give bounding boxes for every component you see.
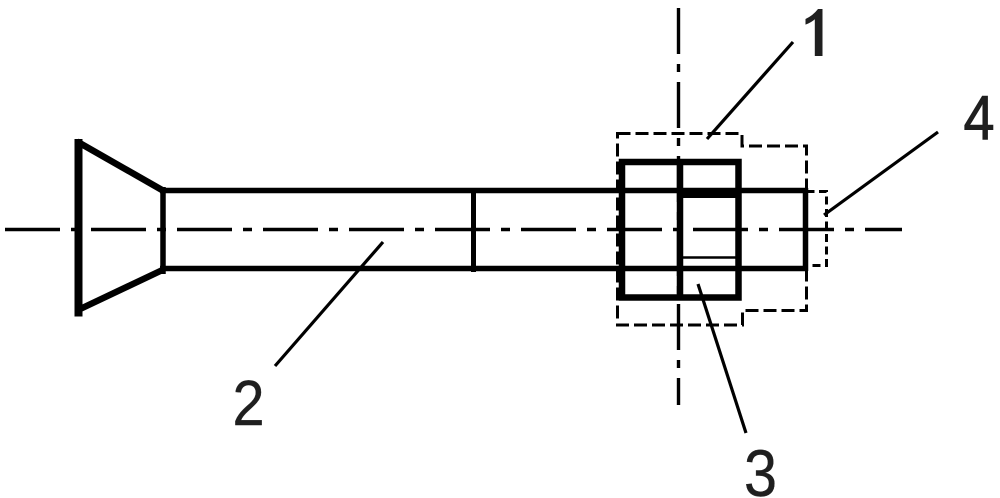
svg-text:4: 4 (963, 84, 994, 152)
shank bottom line (160, 266, 806, 272)
label 4 (963, 84, 994, 152)
label 3 (744, 437, 777, 498)
dashed box 4 at bolt tip (807, 192, 827, 266)
bolt tip end face (803, 188, 809, 271)
label 2 (232, 367, 264, 438)
head top slant (77, 142, 162, 191)
shank top line (160, 188, 806, 194)
nut outer box (622, 162, 739, 298)
label 1 (806, 9, 823, 56)
head-shank junction vertical (160, 187, 166, 274)
mid-shank vertical line (471, 188, 476, 272)
nut right-cell top segment (683, 193, 736, 198)
vertical centerline (677, 8, 680, 405)
countersunk head outer face (75, 139, 83, 317)
leader line 1 (707, 42, 793, 139)
leader line 3 (698, 284, 746, 433)
leader line 2 (275, 242, 383, 366)
svg-text:3: 3 (744, 437, 777, 498)
svg-text:2: 2 (232, 367, 264, 438)
nut right-cell bottom thin line (682, 256, 736, 259)
leader line 4 (824, 132, 938, 215)
dashed stepped outline (expansion zone 1) (618, 134, 807, 326)
nut middle vertical line (677, 159, 684, 300)
horizontal centerline (5, 228, 902, 231)
head bottom slant (77, 270, 164, 311)
